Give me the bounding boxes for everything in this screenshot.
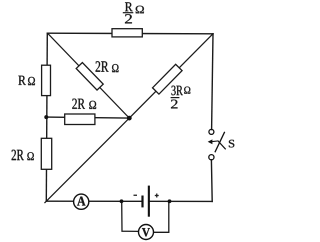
resistor R (left upper) (42, 65, 51, 95)
wire left side (46, 33, 47, 201)
voltmeter V (139, 225, 154, 240)
resistor 2R (left lower) (41, 138, 51, 169)
label R ohm (left upper) (18, 76, 34, 85)
wire middle horizontal (46, 117, 129, 118)
ammeter A (74, 194, 89, 209)
wire diagonal TL corner to center node (48, 33, 130, 118)
node battery right (168, 199, 172, 203)
fraction bar (123, 12, 134, 13)
node junction left (44, 115, 48, 119)
wire right side upper (212, 34, 213, 130)
label 2R ohm (diagonal) (96, 61, 119, 72)
resistor 2R (diagonal) (76, 63, 103, 91)
label plus (155, 194, 159, 198)
node battery left (120, 199, 124, 203)
battery positive plate (148, 186, 150, 217)
label S (229, 140, 234, 148)
switch S (209, 129, 226, 159)
wire diagonal center node to BL corner (45, 118, 129, 203)
resistor 3R/2 (diagonal) (153, 64, 183, 94)
battery negative plate (141, 196, 143, 208)
wire diagonal center node to TR corner (129, 34, 213, 118)
wire top side (48, 32, 214, 35)
resistor 2R (middle horizontal) (65, 114, 95, 125)
label R/2 ohm (top) (123, 2, 144, 23)
wire bottom side (46, 200, 212, 202)
fraction bar (171, 97, 180, 98)
label 3R ohm over 2 (diagonal) (171, 86, 191, 109)
label 2R ohm (middle) (72, 99, 96, 109)
wire right side lower (210, 160, 213, 202)
switch arrow head (208, 139, 213, 144)
resistor R/2 (top) (112, 29, 142, 37)
label minus (134, 195, 138, 196)
node center (127, 116, 132, 121)
label 2R ohm (left lower) (12, 150, 34, 160)
wire voltmeter branch (122, 201, 169, 232)
